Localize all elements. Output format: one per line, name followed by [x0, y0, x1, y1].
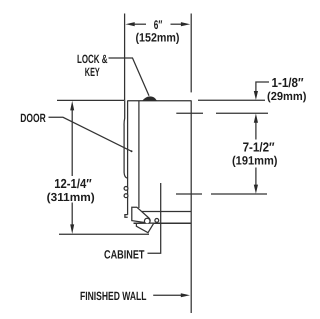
wire 6-inch left extension line	[124, 14, 126, 101]
wire 7-1/2 dim line segments	[255, 122, 257, 140]
wire top extension line 12-1/4	[57, 99, 124, 101]
wire door back face	[127, 101, 129, 215]
wire finished wall arrow tail	[153, 294, 181, 296]
svg-text:LOCK &: LOCK &	[77, 52, 108, 66]
svg-text:7-1/2″: 7-1/2″	[243, 140, 275, 155]
wire 1-1/8 bracket	[256, 82, 269, 91]
lever roller circle small	[155, 219, 159, 223]
wire door front lower	[125, 215, 128, 218]
wire cabinet top	[127, 100, 191, 102]
arrowhead 6-inch left	[125, 22, 134, 26]
svg-text:DOOR: DOOR	[20, 111, 46, 125]
hinge knuckle circle lower	[124, 194, 128, 198]
arrowhead 7-1/2 down	[254, 185, 258, 194]
svg-text:1-1/8″: 1-1/8″	[272, 75, 304, 90]
lever wedge	[132, 207, 150, 223]
arrowhead 7-1/2 up	[254, 114, 258, 123]
wire 6-inch dim arrow tails	[134, 23, 146, 25]
wire cabinet front wall	[138, 101, 140, 208]
svg-text:FINISHED WALL: FINISHED WALL	[80, 289, 147, 303]
wire cabinet top right extension	[198, 99, 265, 101]
svg-text:(311mm): (311mm)	[47, 191, 95, 204]
svg-text:KEY: KEY	[85, 65, 100, 79]
arrowhead 12-1/4 up	[70, 101, 74, 111]
wire 7-1/2 bottom extension	[176, 193, 202, 195]
hinge knuckle circle upper	[124, 187, 128, 191]
wire cabinet leader vertical	[148, 183, 161, 253]
wire lock leader	[109, 58, 150, 96]
wire 7-1/2 top extension	[176, 112, 203, 114]
arrowhead finished wall	[181, 293, 190, 297]
wire finished wall / 6-inch right extension line	[190, 14, 192, 93]
lever roller circle large	[144, 218, 150, 224]
wire bottom extension line 12-1/4	[59, 233, 149, 235]
arrowhead 1-1/8 down	[254, 91, 258, 100]
wire cabinet bottom	[140, 211, 192, 213]
wire 12-1/4 dim line segments	[71, 109, 73, 176]
arrowhead 6-inch right	[181, 22, 190, 26]
svg-text:CABINET: CABINET	[104, 248, 145, 262]
svg-text:(29mm): (29mm)	[267, 90, 307, 103]
arrowhead 12-1/4 down	[70, 224, 74, 234]
wire door leader	[49, 117, 133, 151]
wire cabinet tray bottom	[134, 222, 192, 224]
svg-text:(152mm): (152mm)	[136, 30, 180, 44]
wire door front face	[124, 100, 127, 178]
door leader end dot	[131, 150, 133, 152]
svg-text:(191mm): (191mm)	[232, 154, 278, 168]
flap triangle	[136, 224, 153, 233]
svg-text:12-1/4″: 12-1/4″	[54, 176, 91, 191]
lock bump	[142, 96, 157, 100]
